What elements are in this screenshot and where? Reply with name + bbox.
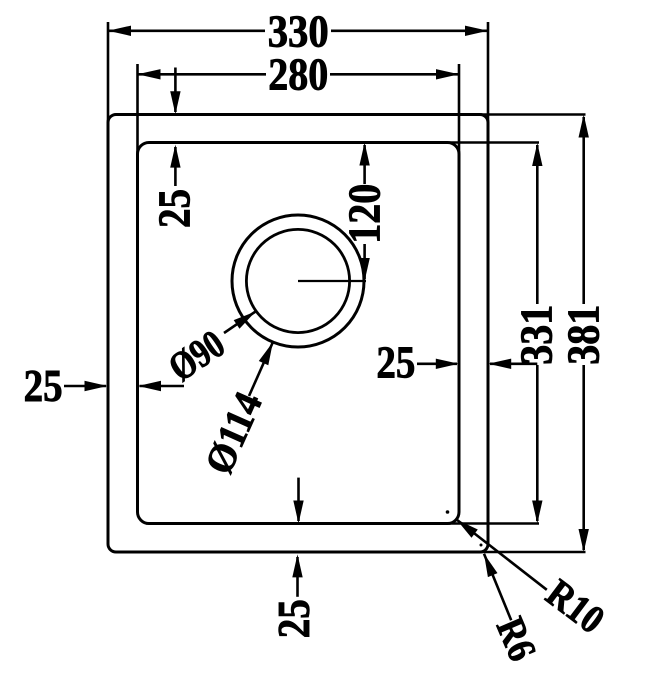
- svg-text:120: 120: [340, 184, 390, 244]
- inner circle (drain hole Ø90): [246, 229, 349, 332]
- dimension 330 line: [108, 29, 488, 32]
- leader Ø114 line: [249, 342, 273, 396]
- dimension 120 line lower part with down arrow: [363, 244, 366, 279]
- extension line left of 280 dim: [136, 64, 139, 162]
- extension inner-top edge to 331 dim: [437, 141, 539, 144]
- extension inner-bottom edge to 331 dim: [437, 522, 539, 525]
- leader R6 line: [484, 554, 511, 621]
- dimension 381 line with arrows: [582, 117, 585, 304]
- dimension 120 line upper part with up arrow: [363, 145, 366, 184]
- leader R10 line: [457, 520, 547, 590]
- dimension 25 bottom, upper segment with down arrow: [297, 478, 300, 521]
- inner rectangle (bowl 280x331): [138, 143, 460, 524]
- extension line left of 330 dim: [107, 22, 110, 131]
- dimension 331 line with arrows: [536, 145, 539, 304]
- svg-text:25: 25: [150, 189, 200, 228]
- extension outer-top edge to 381 dim: [466, 113, 586, 116]
- dimension 25 right, left segment with right arrow: [417, 362, 457, 365]
- extension outer-bottom edge to 381 dim: [466, 551, 586, 554]
- dimension 25 top-left, lower segment with up arrow: [174, 147, 177, 186]
- svg-text:331: 331: [511, 305, 561, 365]
- dimension 25 left, left segment with right arrow: [64, 385, 106, 388]
- svg-text:381: 381: [558, 305, 608, 365]
- centre line from circle centre: [298, 280, 366, 282]
- svg-text:280: 280: [268, 50, 328, 100]
- extension line right of 330 dim: [487, 22, 490, 131]
- extension line right of 280 dim: [458, 64, 461, 162]
- outer rectangle (sink rim 330x381): [108, 115, 488, 553]
- dimension 25 right, right segment with left arrow: [490, 362, 537, 365]
- svg-text:25: 25: [376, 338, 415, 388]
- svg-text:25: 25: [269, 599, 319, 638]
- dimension 25 left, right segment with left arrow: [140, 385, 185, 388]
- R10 corner-centre dot: [446, 510, 450, 514]
- dimension 25 top-left, upper segment with down arrow: [174, 68, 177, 113]
- outer circle (drain Ø114): [232, 215, 364, 347]
- R6 corner-centre dot: [480, 544, 483, 547]
- dimension 280 line: [138, 73, 460, 76]
- leader Ø90 line: [224, 312, 256, 334]
- svg-text:25: 25: [24, 361, 63, 411]
- dimension 25 bottom, lower segment with up arrow: [296, 557, 299, 597]
